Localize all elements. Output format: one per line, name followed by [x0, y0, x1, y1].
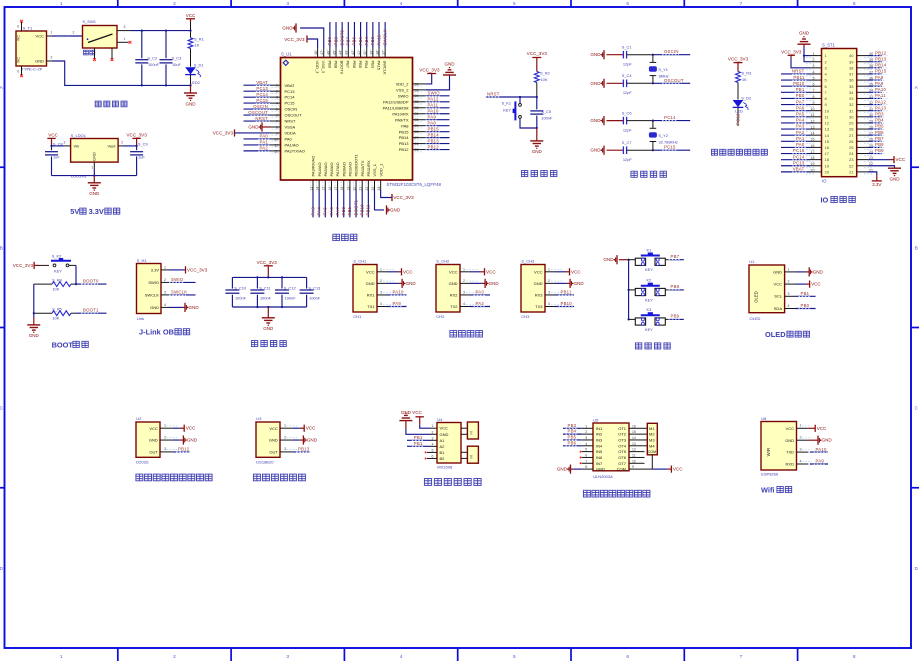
- svg-text:PA7/AO: PA7/AO: [335, 162, 340, 176]
- ST1 left pin 14: [781, 130, 830, 138]
- svg-text:PC14: PC14: [793, 154, 805, 159]
- svg-text:PB9: PB9: [875, 148, 884, 153]
- U1 top pin 46 PB9: [326, 22, 332, 69]
- svg-text:ESP8266: ESP8266: [761, 472, 779, 477]
- svg-text:12pF: 12pF: [623, 157, 632, 162]
- ST1 right pin 35: [849, 81, 885, 89]
- connector S_ST1 IO expansion: [822, 43, 857, 184]
- svg-text:33: 33: [849, 96, 854, 101]
- svg-text:GND: GND: [263, 326, 274, 331]
- svg-text:VCC: VCC: [817, 426, 827, 431]
- svg-text:PA5: PA5: [796, 112, 805, 117]
- U5 right pin 16: [629, 424, 647, 428]
- svg-text:BOOT1: BOOT1: [83, 308, 99, 313]
- svg-text:S_CH3: S_CH3: [521, 259, 535, 264]
- svg-text:PA3: PA3: [476, 290, 485, 295]
- U1 left pin 12 PA2/TX/AO: [244, 146, 305, 154]
- svg-text:A1: A1: [440, 438, 446, 443]
- svg-text:D203S: D203S: [136, 459, 149, 464]
- ST1 left pin 10: [781, 105, 830, 113]
- svg-text:GND: GND: [185, 101, 196, 106]
- svg-text:PB10: PB10: [360, 204, 365, 216]
- svg-text:GND: GND: [489, 281, 500, 286]
- U1 right pin 25 PB12: [399, 144, 450, 152]
- svg-text:12: 12: [825, 121, 830, 126]
- svg-text:IN3: IN3: [596, 438, 603, 443]
- CH1 pin 4: [377, 301, 407, 307]
- svg-text:PC15: PC15: [793, 148, 805, 153]
- U1 left pin 9 VDDA: [213, 129, 296, 136]
- svg-text:2: 2: [51, 56, 53, 60]
- svg-text:TXD: TXD: [786, 450, 794, 455]
- U1 bottom pin 16 PA6/AO: [328, 162, 334, 217]
- caption BOOT电路: [52, 340, 89, 349]
- svg-text:NRST: NRST: [255, 116, 268, 121]
- svg-text:PB5: PB5: [358, 36, 363, 45]
- svg-text:12pF: 12pF: [623, 62, 632, 67]
- caption 滤波电路: [251, 341, 286, 347]
- svg-text:PA6: PA6: [796, 105, 805, 110]
- svg-text:VCC_3V3: VCC_3V3: [419, 68, 440, 73]
- svg-text:OT6: OT6: [618, 455, 627, 460]
- svg-text:PB1: PB1: [347, 206, 352, 215]
- svg-text:PB0: PB0: [796, 93, 805, 98]
- svg-text:GND: GND: [532, 149, 543, 154]
- svg-text:PB14: PB14: [399, 135, 410, 140]
- svg-text:3: 3: [286, 654, 289, 660]
- svg-text:U6: U6: [761, 416, 767, 421]
- svg-text:4: 4: [432, 442, 434, 446]
- svg-text:PB12: PB12: [399, 147, 410, 152]
- U1 right pin 34 SWIO: [398, 91, 450, 99]
- svg-text:IN2: IN2: [596, 432, 603, 437]
- U5 right pin 13: [629, 442, 647, 446]
- U6 pin 3: [797, 447, 829, 453]
- MCU S_U1 STM32F103C8T6_LQFP48: [281, 52, 442, 188]
- capacitor S_C2 100nF: [135, 30, 159, 87]
- capacitor S_C6 12pF / PC14 row: [590, 111, 690, 133]
- svg-text:PA9: PA9: [428, 115, 437, 120]
- U2 pin 1: [160, 424, 196, 432]
- svg-text:S_D2: S_D2: [741, 95, 751, 100]
- ST1 right pin 29: [849, 118, 885, 126]
- filter top rail: [232, 276, 306, 278]
- U1 left pin 8 VSSA: [248, 122, 295, 131]
- svg-text:12pF: 12pF: [623, 90, 632, 95]
- svg-text:PB7: PB7: [671, 254, 680, 259]
- svg-text:OSCOUT: OSCOUT: [248, 110, 268, 115]
- svg-text:3: 3: [463, 290, 465, 294]
- svg-text:VCC: VCC: [786, 426, 795, 431]
- svg-text:6: 6: [432, 454, 434, 458]
- CH2 pin 2: [460, 279, 499, 288]
- ground GND filter: [262, 307, 275, 331]
- wire VCC to LDO Vin: [50, 141, 70, 147]
- svg-text:S_LDO1: S_LDO1: [71, 133, 87, 138]
- svg-text:PC13: PC13: [735, 113, 740, 125]
- ST1 right pin 22: [849, 162, 901, 181]
- motor connector B (bottom): [461, 446, 478, 463]
- ST1 left pin 1: [803, 52, 828, 58]
- svg-text:PA2: PA2: [260, 146, 269, 151]
- svg-text:PA2: PA2: [476, 301, 485, 306]
- svg-text:PA4/AO: PA4/AO: [317, 162, 322, 176]
- U5 right pin 12: [629, 448, 645, 452]
- svg-text:PA7: PA7: [796, 99, 805, 104]
- svg-text:30: 30: [849, 114, 854, 119]
- svg-text:WIFI: WIFI: [766, 448, 771, 457]
- crystal S_Y1 8MHz: [649, 55, 669, 84]
- svg-text:NRST: NRST: [792, 69, 805, 74]
- svg-text:1: 1: [585, 424, 587, 428]
- U1 right pin 26 PB13: [399, 138, 450, 146]
- svg-text:1K: 1K: [742, 77, 747, 82]
- U1 right pin 35 VSS_2: [396, 62, 456, 93]
- svg-text:17: 17: [825, 151, 830, 156]
- svg-text:22: 22: [849, 163, 854, 168]
- CH2 pin 4: [460, 301, 490, 307]
- push button S_K2 KEY: [51, 254, 76, 285]
- svg-text:3: 3: [548, 290, 550, 294]
- svg-text:1: 1: [164, 265, 166, 269]
- svg-text:PB6: PB6: [352, 61, 357, 69]
- svg-text:LED: LED: [735, 109, 743, 114]
- svg-text:TX2: TX2: [450, 304, 458, 309]
- svg-text:B2: B2: [440, 456, 446, 461]
- svg-text:PC13: PC13: [793, 160, 805, 165]
- svg-text:B1: B1: [440, 450, 446, 455]
- svg-text:PC14: PC14: [664, 115, 676, 120]
- svg-text:VBAT: VBAT: [793, 167, 805, 172]
- svg-text:IO: IO: [822, 179, 827, 184]
- svg-text:COM: COM: [648, 450, 657, 454]
- svg-text:GND: GND: [248, 124, 259, 129]
- svg-text:PB3: PB3: [568, 423, 577, 428]
- svg-text:VBAT: VBAT: [256, 80, 268, 85]
- power port VCC (LDO input): [47, 133, 58, 146]
- svg-text:2: 2: [173, 654, 176, 660]
- svg-text:S_C10: S_C10: [234, 285, 247, 290]
- svg-text:PA7: PA7: [335, 207, 340, 216]
- svg-text:4: 4: [463, 302, 465, 306]
- svg-text:VCC: VCC: [896, 157, 906, 162]
- svg-text:PA10: PA10: [875, 87, 886, 92]
- svg-text:OLED: OLED: [765, 330, 786, 339]
- svg-text:K1: K1: [647, 247, 652, 252]
- power port VCC dc-motor: [412, 410, 430, 428]
- svg-text:PB4: PB4: [364, 61, 369, 69]
- ST1 left pin 11: [781, 112, 829, 120]
- svg-text:OT1: OT1: [618, 426, 627, 431]
- capacitor S_C10 100nF: [225, 277, 247, 307]
- ST1 left pin 16: [781, 142, 830, 150]
- svg-text:S_R2: S_R2: [540, 71, 550, 76]
- svg-text:IN1: IN1: [596, 426, 603, 431]
- U1 right pin 27 PB14: [399, 132, 450, 140]
- svg-text:1: 1: [788, 267, 790, 271]
- svg-text:BOOT0: BOOT0: [339, 29, 344, 45]
- svg-text:SWCLK: SWCLK: [145, 293, 160, 298]
- svg-text:VCC_3V3: VCC_3V3: [527, 51, 548, 56]
- svg-text:PB13: PB13: [875, 56, 887, 61]
- svg-text:PB5: PB5: [358, 61, 363, 69]
- svg-text:PA9: PA9: [816, 459, 825, 464]
- svg-text:GND: GND: [35, 58, 44, 63]
- caption 人体热释电感应模块: [136, 474, 212, 481]
- svg-text:PC15: PC15: [664, 145, 676, 150]
- svg-text:PA10: PA10: [393, 290, 404, 295]
- svg-text:8: 8: [853, 1, 856, 7]
- svg-text:KEY: KEY: [503, 108, 511, 113]
- svg-text:SDA: SDA: [774, 306, 783, 311]
- CH3 pin 2: [545, 279, 584, 288]
- ST1 right pin 30: [849, 112, 885, 120]
- svg-text:25: 25: [849, 145, 854, 150]
- svg-text:B: B: [0, 245, 3, 251]
- filter bottom rail: [232, 306, 306, 308]
- U1 top pin 41 PB5: [357, 22, 363, 69]
- svg-text:S_Y1: S_Y1: [658, 67, 668, 72]
- svg-text:IO: IO: [821, 195, 829, 204]
- ST1 left pin 15: [781, 136, 830, 144]
- svg-text:OT3: OT3: [618, 438, 627, 443]
- U2 pin 2: [160, 435, 198, 444]
- svg-text:7: 7: [585, 459, 587, 463]
- svg-text:TX3: TX3: [535, 304, 543, 309]
- svg-text:PB4: PB4: [568, 429, 577, 434]
- svg-text:2: 2: [284, 435, 286, 439]
- ground GND power block: [184, 85, 197, 106]
- svg-text:S_K2: S_K2: [52, 254, 62, 259]
- U5 left pin 5: [580, 448, 593, 453]
- svg-text:VCC: VCC: [774, 282, 783, 287]
- svg-text:PA15: PA15: [376, 61, 381, 71]
- svg-text:STM32F103C8T6_LQFP48: STM32F103C8T6_LQFP48: [387, 182, 442, 187]
- svg-text:PA2/TX/AO: PA2/TX/AO: [285, 148, 305, 153]
- wire D1 to GND: [189, 75, 191, 87]
- svg-text:2: 2: [173, 1, 176, 7]
- ST1 right pin 21: [849, 168, 882, 187]
- svg-text:15: 15: [632, 430, 636, 434]
- connector S_H1 J-Link: [137, 258, 162, 321]
- svg-text:S_C12: S_C12: [284, 285, 296, 290]
- svg-text:PB1: PB1: [796, 87, 805, 92]
- U1 left pin 11 PA1/AO: [244, 140, 299, 148]
- svg-text:PA1/AO: PA1/AO: [285, 143, 299, 148]
- CH3 pin 1: [545, 267, 581, 275]
- ST1 right pin 25: [849, 142, 885, 150]
- U1 bottom pin 14 PA4/AO: [316, 162, 322, 217]
- svg-text:6: 6: [17, 70, 19, 74]
- svg-text:4: 4: [164, 303, 166, 307]
- svg-text:4: 4: [800, 459, 802, 463]
- svg-text:S_U1: S_U1: [281, 52, 292, 57]
- svg-text:Vin: Vin: [74, 143, 80, 148]
- ST1 left pin 20: [781, 167, 830, 175]
- svg-text:4: 4: [585, 442, 587, 446]
- svg-text:8: 8: [585, 465, 587, 469]
- U1 top pin 48 VDD_3: [284, 35, 320, 74]
- svg-text:VCC_3V3: VCC_3V3: [13, 263, 34, 268]
- ST1 right pin 23: [849, 156, 906, 163]
- svg-text:PA8: PA8: [428, 120, 437, 125]
- svg-text:S_C2: S_C2: [147, 55, 157, 60]
- svg-text:GND: GND: [534, 281, 543, 286]
- U3 pin 2: [280, 435, 318, 444]
- svg-text:VSS_2: VSS_2: [396, 87, 409, 92]
- svg-text:PB14: PB14: [428, 132, 440, 137]
- svg-text:OSCIN: OSCIN: [664, 49, 679, 54]
- svg-text:6: 6: [626, 1, 629, 7]
- wire T1.GND down to ground rail: [47, 56, 191, 86]
- ST1 left pin 19: [781, 160, 830, 168]
- ST1 left pin 4: [781, 69, 828, 77]
- svg-text:U1: U1: [749, 259, 755, 264]
- svg-text:PB6: PB6: [568, 440, 577, 445]
- svg-text:28: 28: [849, 127, 854, 132]
- svg-text:S_C9: S_C9: [138, 141, 148, 146]
- U1 top pin 40 PB4: [363, 22, 369, 69]
- svg-text:IN6: IN6: [596, 455, 603, 460]
- wire T1.VCC to SW1: [47, 31, 83, 37]
- svg-text:VCC_3V3: VCC_3V3: [393, 195, 414, 200]
- svg-text:PB4: PB4: [875, 118, 884, 123]
- svg-text:PB15: PB15: [399, 129, 410, 134]
- ST1 right pin 33: [849, 93, 887, 101]
- connector S_T1 TYPE-C-2P: [16, 26, 47, 72]
- svg-text:LED2: LED2: [190, 80, 200, 85]
- svg-text:PB7: PB7: [875, 136, 884, 141]
- net BOOT1 wire: [76, 308, 107, 314]
- svg-text:4: 4: [788, 304, 790, 308]
- wire LDO GND pin to rail: [91, 162, 94, 176]
- power port VCC_3V3 filter: [257, 260, 278, 277]
- svg-text:PA1: PA1: [796, 136, 805, 141]
- svg-text:S_C1: S_C1: [622, 45, 632, 50]
- CH1 pin 3: [377, 290, 407, 296]
- svg-text:VBAT: VBAT: [285, 83, 296, 88]
- U1 left pin 3 PC14: [244, 92, 296, 100]
- svg-text:40: 40: [849, 53, 854, 58]
- svg-text:5: 5: [513, 654, 516, 660]
- svg-text:BOOT: BOOT: [52, 340, 74, 349]
- svg-text:PB15: PB15: [875, 69, 887, 74]
- svg-text:PA2: PA2: [796, 130, 805, 135]
- svg-text:S_C5: S_C5: [541, 109, 551, 114]
- svg-text:M: M: [469, 455, 474, 458]
- U1 right pin 31 PA10/RX: [392, 109, 449, 117]
- svg-text:DS18B20: DS18B20: [256, 459, 274, 464]
- svg-text:PA10: PA10: [428, 109, 439, 114]
- capacitor S_C1 12pF / OSCIN row: [590, 45, 690, 67]
- caption 串口电路: [450, 331, 483, 338]
- svg-text:GND: GND: [785, 438, 794, 443]
- U5 left pin 2: [563, 429, 593, 435]
- svg-text:VCC: VCC: [449, 269, 458, 274]
- svg-text:PB9: PB9: [327, 36, 332, 45]
- svg-text:PB11/RX: PB11/RX: [366, 160, 371, 176]
- U1 top pin 37 SWCLK: [382, 22, 388, 75]
- svg-text:2: 2: [463, 279, 465, 283]
- svg-text:20: 20: [825, 169, 830, 174]
- U1 bottom pin 23 VSS_1: [371, 163, 401, 214]
- svg-text:100nF: 100nF: [541, 116, 553, 121]
- svg-text:M1: M1: [649, 426, 655, 431]
- svg-text:8: 8: [853, 654, 856, 660]
- U4 left pin 3: [407, 435, 437, 441]
- svg-text:S_K1: S_K1: [501, 101, 511, 106]
- svg-text:PB8: PB8: [671, 284, 680, 289]
- svg-text:3: 3: [284, 447, 286, 451]
- svg-text:GND: GND: [187, 438, 198, 443]
- svg-text:PA12/USB/DP: PA12/USB/DP: [383, 99, 409, 104]
- svg-text:SWCLK: SWCLK: [383, 61, 388, 76]
- svg-text:3: 3: [64, 141, 66, 145]
- pin T1 bottom no-connect: [17, 66, 23, 77]
- svg-text:VCC: VCC: [186, 426, 196, 431]
- svg-text:OSCOUT: OSCOUT: [285, 113, 303, 118]
- svg-text:5V: 5V: [70, 207, 79, 216]
- svg-text:23: 23: [849, 157, 854, 162]
- U2 pin 3: [160, 447, 190, 453]
- svg-text:VCC: VCC: [48, 133, 58, 138]
- svg-text:PB1: PB1: [801, 291, 810, 296]
- svg-text:S_R4: S_R4: [52, 278, 63, 283]
- caption 复位电路: [521, 171, 557, 177]
- caption 温度检测模块: [253, 474, 305, 481]
- svg-text:VCC: VCC: [269, 426, 278, 431]
- capacitor S_C13 100nF: [300, 277, 321, 307]
- svg-text:3: 3: [286, 1, 289, 7]
- svg-text:VCC: VCC: [811, 282, 821, 287]
- svg-text:PB12: PB12: [428, 144, 440, 149]
- ST1 right pin 37: [849, 69, 887, 77]
- svg-text:D: D: [914, 566, 918, 572]
- svg-text:GND: GND: [269, 438, 278, 443]
- svg-text:10K: 10K: [541, 77, 548, 82]
- svg-text:SWIO: SWIO: [148, 280, 159, 285]
- svg-text:PA0: PA0: [260, 134, 269, 139]
- ST1 left pin 6: [781, 81, 828, 89]
- U1 left pin 6 OSCOUT: [244, 110, 303, 118]
- svg-text:VCC: VCC: [366, 269, 375, 274]
- svg-text:ULN2003A: ULN2003A: [593, 474, 613, 479]
- ST1 right pin 39: [849, 56, 887, 64]
- svg-text:1: 1: [432, 424, 434, 428]
- U1 bottom pin 24 VDD_1: [377, 163, 414, 201]
- svg-text:CH2: CH2: [436, 314, 445, 319]
- U5 left pin 8: [557, 465, 593, 474]
- U5 left pin 1: [563, 423, 593, 429]
- U1 right pin 30 PA9/TX: [395, 115, 450, 123]
- svg-text:36: 36: [849, 78, 854, 83]
- svg-text:GND: GND: [889, 177, 900, 182]
- svg-text:31: 31: [849, 108, 854, 113]
- svg-text:VDD_3: VDD_3: [315, 61, 320, 75]
- svg-text:PC13: PC13: [285, 89, 296, 94]
- svg-text:PA4: PA4: [796, 118, 805, 123]
- U5 left pin 6: [580, 453, 593, 458]
- U1 top pin 43 PB7: [345, 22, 351, 69]
- svg-text:S_C11: S_C11: [259, 285, 271, 290]
- svg-text:SWCLK: SWCLK: [171, 290, 187, 295]
- U1 right pin 29 PA8: [401, 120, 449, 128]
- svg-text:100nF: 100nF: [285, 295, 297, 300]
- svg-text:GND: GND: [406, 281, 417, 286]
- svg-text:S_Y2: S_Y2: [658, 133, 668, 138]
- svg-text:BOOT1: BOOT1: [353, 199, 358, 215]
- H1 pin 4 GND: [161, 303, 199, 312]
